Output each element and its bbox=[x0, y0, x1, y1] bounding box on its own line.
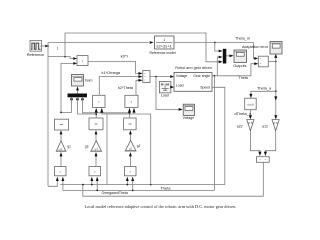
block combiner sum bbox=[257, 157, 270, 163]
wire k2 into P2 left bbox=[129, 111, 131, 118]
wire k0 to param mux bbox=[61, 97, 72, 112]
wire k2 to param mux bbox=[83, 97, 130, 113]
mux Param (black bar) bbox=[68, 94, 88, 98]
block product P1 bbox=[93, 95, 105, 107]
svg-text:Load: Load bbox=[161, 93, 169, 97]
block scope Outputs bbox=[234, 50, 247, 63]
svg-text:OmegaandTheta: OmegaandTheta bbox=[102, 191, 128, 195]
wire B3 to T3 bbox=[129, 155, 131, 166]
wire P2 output to SumU in3 bbox=[136, 80, 140, 95]
wire B2 right input bbox=[96, 180, 98, 191]
node u junction bbox=[155, 76, 157, 78]
svg-text:Outputs: Outputs bbox=[233, 64, 246, 68]
wire P0 output to SumU in1 bbox=[88, 62, 140, 74]
wire bottom line1 omega bbox=[60, 184, 225, 186]
wire Ta22 to combiner bbox=[250, 131, 260, 153]
wire B2 left input bbox=[91, 180, 93, 185]
node k2 junction bbox=[129, 112, 131, 114]
svg-text:Reference: Reference bbox=[27, 53, 45, 57]
wire theta to mux in2 bbox=[217, 57, 220, 76]
node line2 dots bbox=[96, 190, 98, 192]
svg-text:Gear angle: Gear angle bbox=[193, 74, 210, 78]
block product B1 bbox=[55, 167, 67, 176]
wire du/dt to Ta22 bbox=[249, 110, 251, 117]
node theta_a junction bbox=[275, 90, 277, 92]
wire B3 right input bbox=[132, 180, 134, 191]
wire B2 to T2 bbox=[95, 155, 97, 166]
block integrator I3 bbox=[124, 118, 137, 130]
gain T1 g1 bbox=[56, 141, 67, 152]
source Reference bbox=[30, 40, 42, 51]
svg-text:1: 1 bbox=[57, 47, 59, 51]
block integrator I2 bbox=[89, 118, 103, 130]
wire mux output to Outputs bbox=[226, 55, 230, 57]
wire e down riser bbox=[275, 62, 277, 117]
wire left trunk vertical bbox=[47, 43, 49, 187]
wire bottom line2 theta bbox=[63, 189, 215, 191]
wire B1 right input from theta line bbox=[62, 180, 64, 191]
node r branch bbox=[64, 56, 66, 58]
svg-text:Reference model: Reference model bbox=[150, 51, 176, 55]
wire T3 to I3 bbox=[129, 133, 131, 140]
svg-text:s2+2s+1: s2+2s+1 bbox=[156, 44, 172, 48]
wire SumU output to robot arm bbox=[150, 76, 171, 78]
node line1 dots bbox=[82, 184, 84, 186]
node mux stubs bbox=[70, 98, 73, 101]
wire theta_m to sum in1 bbox=[253, 43, 255, 59]
wire Reference output bbox=[41, 45, 47, 47]
wire theta_m to mux in1 bbox=[215, 43, 220, 52]
svg-text:1: 1 bbox=[163, 38, 165, 42]
gain T2 g3 bbox=[90, 141, 102, 152]
wire B3 left input bbox=[126, 180, 128, 185]
block product B3 bbox=[125, 167, 137, 176]
svg-text:Robot arm gear driven: Robot arm gear driven bbox=[175, 66, 212, 70]
wire r to mux input3 bbox=[65, 33, 220, 62]
block Reference model bbox=[155, 36, 175, 49]
svg-text:Voltage: Voltage bbox=[176, 74, 187, 78]
block sum SumU bbox=[143, 71, 150, 83]
svg-text:Load: Load bbox=[176, 84, 184, 88]
node k0 junction bbox=[60, 112, 62, 114]
wire theta to sum in2 bbox=[217, 64, 255, 76]
gain Ta12 bbox=[272, 120, 279, 131]
wire T1 to I1 bbox=[60, 133, 62, 141]
node ref junction bbox=[47, 45, 49, 47]
mux right (black bar) bbox=[223, 49, 227, 64]
wire omega into P1 right bbox=[101, 111, 103, 114]
block product B2 bbox=[89, 167, 101, 176]
svg-text:0.5: 0.5 bbox=[273, 121, 278, 125]
source Load bbox=[159, 81, 171, 93]
wire omega feeder riser bbox=[102, 114, 151, 185]
svg-text:Local model reference adaptive: Local model reference adaptive control o… bbox=[85, 205, 237, 209]
wire combiner output down to bus bbox=[83, 162, 263, 196]
svg-text:Theta_m: Theta_m bbox=[235, 37, 250, 41]
svg-text:Adaptation error: Adaptation error bbox=[242, 45, 269, 49]
wire B1 left input from r bbox=[48, 180, 57, 187]
block scope Param bbox=[72, 75, 84, 87]
svg-text:k1*Omega: k1*Omega bbox=[102, 71, 121, 75]
block sum adaptation error bbox=[258, 56, 268, 67]
wire theta_m from reference model bbox=[174, 42, 253, 44]
wire mux to Param scope bbox=[77, 89, 79, 93]
svg-text:a22: a22 bbox=[237, 124, 243, 128]
block scope adaptation error bbox=[270, 42, 282, 55]
svg-text:Voltage: Voltage bbox=[183, 116, 195, 120]
wire k1 into P1 left bbox=[95, 111, 97, 118]
block scope Voltage bbox=[183, 104, 194, 115]
block Robot arm subsystem bbox=[174, 73, 212, 92]
wire theta down riser bbox=[213, 76, 215, 191]
wire sum output junction bbox=[268, 61, 276, 63]
wire Load to robot arm bbox=[170, 86, 172, 88]
wire e up to scope bbox=[275, 57, 277, 62]
svg-text:Speed: Speed bbox=[200, 86, 210, 90]
wire k1 to param mux bbox=[78, 97, 97, 114]
svg-text:Param: Param bbox=[85, 79, 93, 83]
block product P2 bbox=[125, 95, 138, 107]
block derivative du/dt bbox=[245, 98, 257, 110]
wire r to reference model bbox=[48, 42, 149, 44]
svg-text:0.5: 0.5 bbox=[248, 121, 253, 125]
node e junction bbox=[275, 61, 277, 63]
svg-text:Theta: Theta bbox=[239, 76, 248, 80]
wire k0 to P0 input2 bbox=[61, 63, 74, 113]
svg-text:g3: g3 bbox=[85, 145, 89, 149]
node theta junction bbox=[214, 75, 216, 77]
svg-text:dTheta_d: dTheta_d bbox=[235, 112, 252, 116]
gain Ta22 bbox=[247, 120, 254, 131]
wire P1 output to SumU in2 bbox=[99, 77, 139, 96]
wire gear angle output bbox=[212, 75, 217, 77]
wire Ta12 to combiner bbox=[265, 131, 275, 153]
svg-text:k2*Theta: k2*Theta bbox=[118, 86, 133, 90]
gain T3 g2 bbox=[125, 140, 137, 151]
svg-text:k0*r: k0*r bbox=[121, 54, 130, 58]
wire T2 to I2 bbox=[95, 133, 97, 141]
node k1 junction bbox=[95, 113, 97, 115]
block product P0 k0*r bbox=[77, 56, 88, 66]
svg-text:Theta: Theta bbox=[160, 186, 170, 190]
wire u to voltage scope bbox=[156, 77, 180, 110]
wire B1 to T1 bbox=[60, 155, 62, 166]
wire theta into P2 right bbox=[133, 111, 135, 114]
wire e to du/dt bbox=[251, 91, 276, 95]
svg-text:Theta_a: Theta_a bbox=[257, 86, 271, 90]
svg-text:g1: g1 bbox=[67, 144, 71, 148]
block integrator I1 bbox=[55, 119, 69, 130]
svg-text:a12: a12 bbox=[262, 124, 268, 128]
svg-text:g2: g2 bbox=[137, 144, 141, 148]
node theta_m junction bbox=[214, 42, 216, 44]
wire speed output riser bbox=[212, 87, 225, 184]
wire r to P0 input1 bbox=[48, 57, 74, 59]
svg-text:du/dt: du/dt bbox=[247, 102, 254, 106]
